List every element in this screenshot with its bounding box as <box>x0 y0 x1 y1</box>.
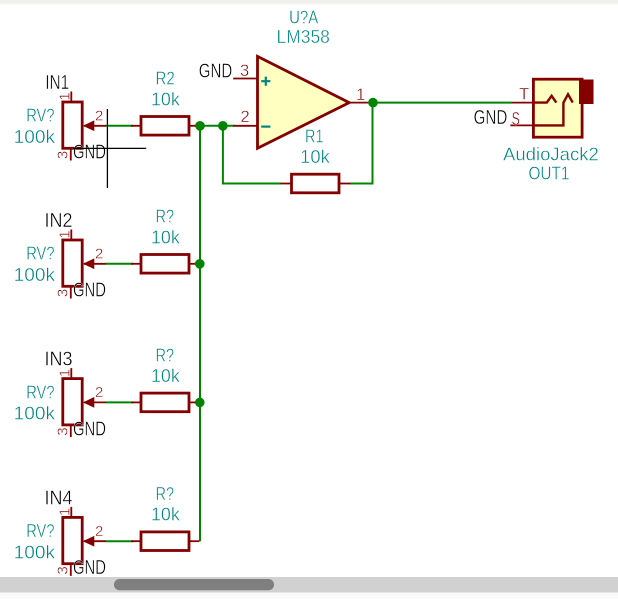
svg-text:IN3: IN3 <box>45 349 73 371</box>
resistor R? pins <box>131 540 141 542</box>
svg-text:AudioJack2: AudioJack2 <box>503 144 599 165</box>
potentiometer RV? IN3 pin3 <box>70 425 72 438</box>
resistor R1 body <box>292 174 340 193</box>
wire row2 pot to R <box>106 263 134 265</box>
resistor R? pins <box>131 401 141 403</box>
resistor R2 pins <box>131 125 141 127</box>
potentiometer RV? IN4 pin1 <box>70 507 72 518</box>
svg-text:3: 3 <box>55 289 72 297</box>
resistor R? pins <box>131 263 141 265</box>
svg-text:GND: GND <box>73 280 106 302</box>
potentiometer RV? IN4 pin2 stub <box>84 540 106 542</box>
potentiometer RV? IN4 pin3 <box>70 563 72 576</box>
potentiometer RV? IN1 body <box>63 102 82 148</box>
svg-text:10k: 10k <box>151 504 181 525</box>
resistor R1 pins <box>281 183 292 185</box>
svg-text:2: 2 <box>95 384 103 401</box>
resistor R? body <box>141 255 189 274</box>
op-amp U1 output stub <box>349 102 373 104</box>
wire row4 pot to R <box>106 540 134 542</box>
potentiometer RV? IN3 pin2 stub <box>84 401 106 403</box>
svg-text:10k: 10k <box>151 88 181 109</box>
svg-text:1: 1 <box>356 86 365 104</box>
resistor R? body <box>141 393 189 412</box>
resistor R2 body <box>141 117 189 136</box>
audio jack tip contact <box>533 96 556 103</box>
svg-text:U?A: U?A <box>289 6 319 27</box>
wire row1 R2 to opamp pin2 <box>195 125 235 127</box>
wire row1 pot to R2 <box>106 125 134 127</box>
op-amp U1 pin2 stub <box>233 125 257 127</box>
svg-text:GND: GND <box>73 142 106 164</box>
potentiometer RV? IN3 body <box>63 379 82 425</box>
svg-text:100k: 100k <box>14 541 56 562</box>
svg-text:3: 3 <box>55 427 72 435</box>
svg-text:RV?: RV? <box>26 243 54 264</box>
svg-text:LM358: LM358 <box>277 26 330 47</box>
scrollbar track <box>0 577 618 593</box>
wire row3 pot to R <box>106 401 134 403</box>
svg-text:100k: 100k <box>14 403 56 424</box>
junction row3 bus <box>195 398 205 408</box>
svg-text:GND: GND <box>73 557 106 579</box>
svg-text:3: 3 <box>240 62 249 80</box>
op-amp U1 triangle <box>258 56 350 148</box>
area below scrollbar <box>0 593 618 599</box>
svg-text:2: 2 <box>241 108 250 126</box>
potentiometer RV? IN1 wiper arrow <box>84 121 94 130</box>
potentiometer RV? IN2 pin3 <box>70 286 72 299</box>
wire bus vertical IN1..IN4 <box>199 126 201 541</box>
svg-text:R2: R2 <box>156 68 175 89</box>
potentiometer RV? IN4 wiper arrow <box>84 537 94 546</box>
wire feedback right vertical <box>350 103 373 184</box>
svg-text:S: S <box>512 109 520 129</box>
resistor R? body <box>141 532 189 551</box>
svg-text:100k: 100k <box>14 126 56 147</box>
potentiometer RV? IN1 pin1 <box>70 92 72 103</box>
potentiometer RV? IN3 pin1 <box>70 368 72 379</box>
junction row2 bus <box>195 259 205 269</box>
audio jack tip pin stub <box>512 102 534 104</box>
svg-text:R?: R? <box>156 483 175 504</box>
potentiometer RV? IN4 body <box>63 517 82 563</box>
op-amp minus mark <box>261 125 270 127</box>
svg-text:R?: R? <box>156 344 175 365</box>
op-amp U1 pin3 stub <box>233 78 257 80</box>
svg-text:RV?: RV? <box>26 381 54 402</box>
potentiometer RV? IN3 wiper arrow <box>84 398 94 407</box>
potentiometer RV? IN2 body <box>63 240 82 286</box>
svg-text:R1: R1 <box>305 126 324 147</box>
crosshair cursor <box>73 109 146 188</box>
svg-text:2: 2 <box>95 523 103 540</box>
scrollbar thumb <box>114 579 274 590</box>
svg-text:R?: R? <box>156 206 175 227</box>
junction output <box>368 98 378 108</box>
potentiometer RV? IN2 wiper arrow <box>84 259 94 268</box>
junction row1 bus <box>195 121 205 131</box>
potentiometer RV? IN2 pin1 <box>70 230 72 241</box>
audio jack body <box>533 79 582 137</box>
wire output to jack <box>369 102 513 104</box>
svg-text:10k: 10k <box>151 226 181 247</box>
svg-text:3: 3 <box>55 151 72 159</box>
svg-text:T: T <box>519 86 529 104</box>
wire row2 R to bus <box>195 263 201 265</box>
svg-text:IN4: IN4 <box>45 487 73 509</box>
wire row3 R to bus <box>195 401 201 403</box>
svg-text:GND: GND <box>474 107 508 129</box>
svg-text:GND: GND <box>199 60 232 82</box>
svg-text:10k: 10k <box>151 365 181 386</box>
potentiometer RV? IN1 pin3 <box>70 148 72 161</box>
wire feedback left vertical <box>223 126 281 184</box>
audio jack sleeve contact <box>533 94 572 125</box>
svg-text:OUT1: OUT1 <box>529 163 570 184</box>
svg-text:RV?: RV? <box>26 520 54 541</box>
op-amp plus mark <box>261 77 270 86</box>
junction row1 feedback <box>218 121 228 131</box>
svg-text:IN1: IN1 <box>45 72 69 94</box>
audio jack sleeve pin stub <box>510 124 533 126</box>
svg-text:100k: 100k <box>14 264 56 285</box>
potentiometer RV? IN2 pin2 stub <box>84 263 106 265</box>
svg-text:2: 2 <box>95 246 103 263</box>
svg-text:GND: GND <box>73 418 106 440</box>
svg-text:2: 2 <box>95 108 103 125</box>
svg-text:3: 3 <box>55 566 72 574</box>
svg-text:10k: 10k <box>300 146 330 167</box>
svg-text:IN2: IN2 <box>45 210 73 232</box>
audio jack plug square <box>579 80 594 105</box>
svg-text:RV?: RV? <box>26 105 54 126</box>
potentiometer RV? IN1 pin2 stub <box>84 125 106 127</box>
